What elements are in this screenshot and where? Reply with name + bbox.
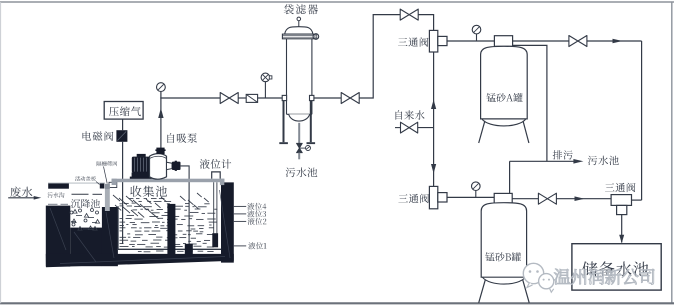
pipe to right drop bbox=[587, 40, 642, 42]
sewage channel water dashes bbox=[48, 194, 102, 204]
pipe to 3-way valve A bbox=[418, 15, 433, 31]
check valve (rect with diagonal) bbox=[246, 94, 257, 102]
level float (black) bbox=[212, 233, 218, 247]
label 废水 bbox=[10, 187, 32, 198]
gate valve V4 bbox=[569, 36, 587, 47]
label 收集池 bbox=[130, 186, 167, 197]
drain riser down to tank B cap bbox=[509, 161, 511, 193]
pipe valve C down to storage bbox=[621, 215, 623, 243]
label 排污 bbox=[553, 150, 573, 159]
bag filter vent pin bbox=[298, 21, 300, 28]
faint highlight streaks in walls bbox=[50, 190, 230, 264]
pipe fitting box at pool corner bbox=[109, 182, 117, 187]
flow arrow up to valve A bbox=[431, 100, 436, 110]
gray grid screen bar 隔栅筛网 bbox=[105, 184, 110, 211]
tap water valve V5 bbox=[401, 122, 418, 133]
label 三通阀 B bbox=[398, 194, 429, 203]
pipe up and over to top bbox=[359, 15, 400, 98]
pressure gauge G2 with cross bbox=[264, 82, 266, 98]
frame bottom border line bbox=[0, 302, 674, 304]
block under settling basin bbox=[70, 228, 102, 267]
level leader lines bbox=[234, 205, 246, 207]
pool right wall (black) bbox=[221, 182, 234, 262]
tank B cap bbox=[494, 193, 512, 204]
label 自吸泵 bbox=[167, 133, 197, 143]
pool top thin gray line bbox=[48, 182, 105, 184]
bag filter bottom bowl bbox=[289, 114, 310, 121]
label 袋滤器 bbox=[284, 4, 318, 14]
pump suction pipe elbow bbox=[181, 166, 190, 244]
pressure gauge G4 bbox=[475, 191, 477, 198]
frame right border line bbox=[671, 2, 673, 303]
label 液位2 bbox=[248, 218, 267, 225]
watermark wechat logo bbox=[523, 263, 554, 292]
level sensor guide tubes bbox=[213, 182, 215, 233]
level gauge bracket bbox=[212, 172, 221, 179]
tank A cap bbox=[494, 36, 512, 47]
air pipe into collection pool bbox=[122, 142, 124, 244]
pipe right vertical drop bbox=[641, 41, 643, 200]
flow arrow up on discharge pipe bbox=[158, 108, 163, 118]
storage box 储备水池 bbox=[572, 244, 661, 290]
inlet turbulence diagonal strokes bbox=[113, 193, 209, 219]
baffle plate in pool bbox=[167, 204, 175, 256]
drain arrow bbox=[573, 159, 583, 164]
bag filter drain pipe bbox=[298, 123, 300, 144]
movable cover plate (black bar) bbox=[48, 184, 69, 189]
label 沉降池 bbox=[71, 199, 100, 208]
bag filter dome bbox=[285, 27, 313, 34]
box 压缩气 (compressed air) bbox=[104, 102, 143, 120]
pipe to 3-way valve C bbox=[556, 198, 611, 200]
pipe tank B outlet bbox=[512, 198, 539, 200]
tank A backwash riser bbox=[513, 45, 547, 161]
label 三通阀 C bbox=[605, 183, 636, 192]
flow arrow right bbox=[575, 196, 585, 201]
bag filter drain valve bbox=[297, 143, 303, 152]
three-way valve A body bbox=[429, 30, 437, 52]
pipe horizontal to bag filter bbox=[160, 97, 220, 99]
solenoid valve (black) bbox=[116, 130, 127, 142]
waste water inlet arrow bbox=[8, 197, 34, 199]
pipe 3-way B to tank B cap bbox=[447, 196, 494, 198]
label 锰砂A罐 bbox=[487, 93, 523, 102]
bag filter drain outlet bbox=[298, 153, 300, 160]
frame left border line bbox=[0, 2, 2, 303]
bag filter inlet flange bbox=[282, 95, 286, 100]
pool left outer wall (black) bbox=[46, 206, 71, 267]
tank B legs bbox=[479, 279, 486, 302]
wall between basin and pool bbox=[102, 207, 118, 266]
tank B vessel body bbox=[481, 203, 526, 278]
label 液位3 bbox=[247, 210, 266, 217]
pipe pump discharge vertical bbox=[160, 92, 162, 149]
foot valve (black) bbox=[185, 244, 193, 255]
label 锰砂B罐 bbox=[485, 252, 521, 261]
pipe 3-way A to tank A cap bbox=[447, 40, 494, 42]
bag filter outlet flange bbox=[310, 95, 314, 100]
settling basin sediment (triangles, circles) bbox=[70, 209, 100, 231]
label 污水池 drain bbox=[588, 156, 619, 165]
tap water main vertical bbox=[433, 52, 435, 186]
bag filter handle eye bbox=[313, 34, 319, 40]
leader line 隔栅筛网 bbox=[104, 167, 108, 184]
gate valve V2 bbox=[341, 93, 359, 104]
frame top border line bbox=[0, 1, 674, 3]
pipe valve C to right riser bbox=[632, 199, 642, 201]
label 活动盖板 bbox=[75, 176, 96, 181]
tank A vessel body bbox=[481, 46, 528, 119]
pool inner left wall line bbox=[117, 206, 119, 249]
gate valve V1 bbox=[220, 93, 238, 104]
label 液位1 bbox=[248, 242, 266, 249]
three-way valve B body bbox=[429, 186, 437, 208]
bag filter flange band bbox=[282, 34, 313, 39]
gate valve V6 bbox=[538, 193, 556, 204]
tank A bottom dish bbox=[482, 119, 526, 126]
collection pool water dashes bbox=[120, 199, 218, 252]
stub to main bbox=[418, 127, 434, 129]
label 隔栅筛网 bbox=[97, 161, 118, 166]
label 液位计 bbox=[200, 159, 231, 169]
label 污水池 under bag filter bbox=[286, 167, 318, 177]
label 自来水 bbox=[396, 110, 425, 119]
pipe bag filter outlet bbox=[314, 97, 341, 99]
tap water inlet stub bbox=[395, 127, 401, 129]
cover plate end block bbox=[100, 184, 105, 189]
three-way valve C body bbox=[611, 195, 631, 206]
flow arrow right bbox=[613, 39, 623, 44]
pressure gauge G1 on discharge bbox=[157, 83, 166, 92]
arrow into storage bbox=[619, 235, 624, 244]
label 三通阀 A bbox=[398, 37, 429, 46]
flow arrow down to valve B bbox=[431, 164, 436, 174]
leader line 活动盖板 bbox=[96, 182, 100, 185]
bag filter body bbox=[286, 39, 288, 115]
pool bottom slab bbox=[46, 254, 234, 267]
pressure gauge G3 bbox=[476, 34, 478, 41]
pipe bbox=[258, 97, 283, 99]
pipe tank A outlet to valve bbox=[513, 40, 570, 42]
tank A legs bbox=[479, 121, 485, 143]
pipe bbox=[238, 97, 246, 99]
watermark text 温州润新公司 bbox=[554, 269, 654, 285]
gate valve V3 top bbox=[400, 9, 418, 20]
tank B bottom dish bbox=[482, 277, 525, 284]
label 电磁阀 bbox=[83, 131, 114, 141]
pump assembly bbox=[130, 148, 181, 180]
gray pool top pipe bar bbox=[112, 179, 225, 183]
drain header to sewage bbox=[510, 160, 578, 162]
wire box to solenoid valve bbox=[122, 119, 124, 130]
label 污水沟 bbox=[47, 192, 64, 197]
label 压缩气 bbox=[109, 106, 141, 116]
label 储备水池 bbox=[582, 261, 648, 276]
bag filter legs bbox=[283, 101, 285, 142]
label 液位4 bbox=[247, 203, 266, 210]
pool floor line bbox=[117, 248, 221, 250]
